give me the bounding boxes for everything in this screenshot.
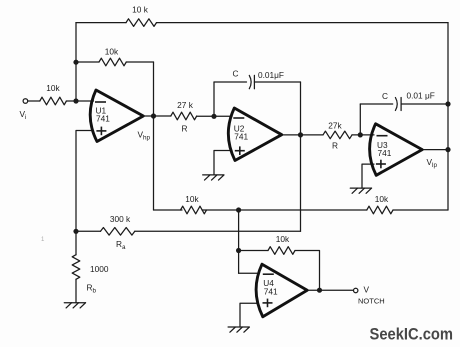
wire top feedback horizontal left bbox=[76, 22, 126, 24]
wire U2 cap left vertical bbox=[213, 82, 215, 116]
svg-text:741: 741 bbox=[96, 114, 110, 124]
terminal V NOTCH bbox=[354, 288, 358, 292]
node U3 minus bbox=[358, 132, 363, 137]
svg-text:R: R bbox=[332, 141, 338, 151]
node U4 feedback bbox=[236, 248, 241, 253]
wire U3 cap left vertical bbox=[359, 104, 361, 135]
op-amp U3 741 bbox=[370, 124, 423, 176]
resistor R 27k first bbox=[171, 112, 197, 120]
wire summing line left bbox=[154, 209, 183, 211]
node summing top bbox=[236, 207, 241, 212]
wire U4 summing node vertical bbox=[238, 210, 240, 273]
wire Vhp to R bbox=[154, 115, 171, 117]
wire U2 output vertical bus bbox=[300, 82, 302, 231]
ground U3 bbox=[350, 188, 371, 193]
svg-text:741: 741 bbox=[378, 148, 392, 158]
svg-text:10 k: 10 k bbox=[132, 5, 149, 15]
ground U2 bbox=[203, 175, 224, 180]
node U4 output bbox=[317, 288, 322, 293]
wire input node to U1 minus bbox=[66, 100, 93, 102]
op-amp U1 741 bbox=[90, 90, 143, 142]
wire summing line middle bbox=[202, 209, 367, 211]
resistor 10k from Vhp bbox=[181, 206, 207, 214]
svg-text:27k: 27k bbox=[328, 121, 342, 131]
wire U4 minus input bbox=[239, 272, 257, 274]
resistor 10k U1 feedback bbox=[99, 58, 126, 66]
svg-text:10k: 10k bbox=[46, 83, 60, 93]
wire U3 cap top right bbox=[401, 103, 448, 105]
node Vhp bbox=[151, 113, 156, 118]
wire U4 plus input bbox=[240, 303, 257, 327]
node feedback junction bbox=[73, 60, 78, 65]
svg-text:10k: 10k bbox=[276, 234, 290, 244]
node U2 minus bbox=[211, 114, 216, 119]
capacitor C2 0.01uF bbox=[395, 98, 397, 111]
resistor 10k from Vlp bbox=[367, 206, 393, 214]
wire U4 output bbox=[307, 289, 353, 291]
resistor 10k top feedback bbox=[126, 19, 157, 27]
node input junction bbox=[73, 98, 78, 103]
wire top feedback horizontal right bbox=[157, 22, 449, 24]
wire U1 output stub bbox=[143, 115, 153, 117]
svg-text:10k: 10k bbox=[375, 194, 389, 204]
ground Rb bbox=[64, 303, 85, 308]
op-amp U4 741 bbox=[256, 264, 307, 317]
op-amp U2 741 bbox=[228, 108, 281, 161]
wire U4 feedback right bbox=[295, 251, 320, 291]
wire right bus vertical bbox=[447, 23, 449, 210]
resistor Ra 300k bbox=[101, 228, 135, 236]
wire U4 feedback left bbox=[239, 250, 268, 252]
wire U1 feedback horizontal bbox=[76, 61, 99, 63]
node cap2 bus bbox=[445, 101, 450, 106]
wire U3 plus input bbox=[362, 164, 374, 188]
svg-text:0.01μF: 0.01μF bbox=[258, 70, 284, 80]
node Vbp U2 output bbox=[298, 132, 303, 137]
node Ra Rb junction bbox=[73, 229, 78, 234]
svg-text:10k: 10k bbox=[105, 47, 119, 57]
wire Ra left bbox=[76, 230, 101, 232]
svg-text:V: V bbox=[364, 285, 370, 295]
wire input bbox=[28, 100, 40, 102]
wire U2 plus input bbox=[214, 151, 232, 175]
svg-text:27 k: 27 k bbox=[177, 100, 194, 110]
svg-text:C: C bbox=[382, 91, 388, 101]
wire Ra right bbox=[135, 230, 301, 232]
svg-text:0.01 μF: 0.01 μF bbox=[407, 91, 435, 101]
wire U2 output bbox=[280, 134, 323, 136]
resistor R 27k second bbox=[323, 131, 352, 139]
wire U2 cap top right bbox=[254, 81, 300, 83]
svg-text:SeekIC.com: SeekIC.com bbox=[370, 325, 454, 344]
svg-text:NOTCH: NOTCH bbox=[358, 297, 385, 306]
svg-text:741: 741 bbox=[264, 286, 278, 296]
terminal Vi bbox=[23, 99, 28, 104]
svg-text:741: 741 bbox=[234, 131, 248, 141]
svg-text:C: C bbox=[233, 69, 239, 79]
resistor 10k input bbox=[40, 97, 67, 105]
wire U2 cap top left bbox=[214, 81, 247, 83]
wire top feedback left vertical bbox=[75, 23, 77, 102]
resistor 10k U4 feedback bbox=[268, 247, 295, 255]
svg-text:10k: 10k bbox=[185, 194, 199, 204]
wire U3 output Vlp bbox=[422, 149, 448, 151]
wire Vhp vertical bus bbox=[153, 62, 155, 210]
node Vlp bbox=[445, 147, 450, 152]
capacitor C1 0.01uF bbox=[249, 75, 251, 88]
ground U4 bbox=[228, 327, 249, 332]
svg-text:300 k: 300 k bbox=[110, 214, 131, 224]
wire U1 plus input bbox=[76, 131, 94, 232]
svg-text:R: R bbox=[182, 124, 188, 134]
wire summing line right bbox=[393, 209, 448, 211]
svg-text:1000: 1000 bbox=[90, 264, 109, 274]
wire U3 cap top left bbox=[360, 103, 392, 105]
resistor Rb 1000 bbox=[75, 231, 77, 254]
